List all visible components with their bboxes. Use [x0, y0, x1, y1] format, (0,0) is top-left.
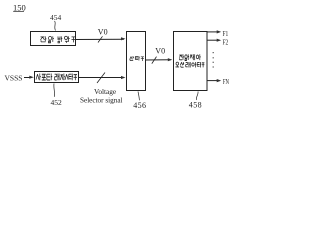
부	[72, 37, 76, 43]
bus slash on wire	[97, 73, 105, 84]
block 456 selector box	[127, 32, 146, 91]
node 452 reference label	[51, 84, 63, 108]
부	[202, 63, 205, 68]
svg-text:Selector signal: Selector signal	[80, 96, 123, 104]
wire voltage selector signal from 452 to selector	[79, 76, 126, 79]
선	[130, 56, 134, 61]
레	[186, 62, 191, 68]
지	[60, 74, 64, 81]
svg-text:458: 458	[189, 101, 202, 110]
부	[141, 57, 144, 61]
부	[74, 75, 77, 81]
block 458 voltage controlled oscillator box	[174, 32, 208, 91]
압	[49, 36, 55, 43]
wire output F2	[207, 37, 228, 46]
실	[180, 62, 184, 67]
svg-text:V0: V0	[98, 28, 108, 37]
생	[65, 36, 70, 43]
node 150 figure reference	[13, 3, 26, 13]
svg-text:150: 150	[13, 3, 26, 13]
터	[197, 62, 201, 68]
svg-text:VSSS: VSSS	[5, 74, 23, 83]
전	[179, 54, 184, 60]
svg-text:456: 456	[133, 101, 146, 110]
block 452 shift register box	[35, 72, 79, 83]
value label 전압제어 오실레이터부 (voltage controlled oscillator)	[179, 54, 200, 60]
bus slash on wire	[152, 57, 157, 64]
node 454 reference label	[50, 13, 62, 31]
svg-text:FN: FN	[223, 77, 230, 86]
bus slash on wire	[98, 36, 103, 42]
svg-text:454: 454	[50, 13, 62, 22]
ellipsis dots for outputs	[213, 52, 214, 68]
net label Voltage Selector signal	[80, 87, 123, 105]
이	[192, 62, 196, 68]
wire output F1	[207, 29, 228, 38]
value label 전압 발생부 (voltage generator)	[41, 36, 76, 43]
프	[42, 74, 46, 80]
node 458 reference label	[189, 92, 202, 110]
트	[47, 74, 52, 81]
wire V0 from 454 to selector	[76, 37, 126, 40]
wire VSSS to register	[24, 76, 34, 79]
wire V0 from selector to oscillator	[145, 58, 172, 61]
value label 선택부 (selector)	[130, 56, 144, 61]
오	[176, 62, 180, 67]
압	[185, 54, 189, 60]
value label 시프트 레지스터부 (shift register)	[36, 74, 77, 81]
발	[58, 36, 62, 43]
전	[41, 36, 47, 42]
wire output FN	[207, 77, 229, 86]
block 454 voltage generator box	[31, 32, 76, 46]
svg-text:F2: F2	[223, 37, 229, 46]
스	[65, 74, 68, 80]
택	[135, 56, 139, 61]
svg-text:452: 452	[51, 98, 63, 107]
node 456 reference label	[133, 92, 146, 110]
터	[69, 74, 73, 81]
어	[196, 54, 200, 60]
레	[55, 74, 60, 81]
svg-text:Voltage: Voltage	[94, 87, 116, 96]
제	[190, 54, 195, 60]
시	[36, 74, 41, 81]
svg-text:V0: V0	[155, 47, 165, 56]
